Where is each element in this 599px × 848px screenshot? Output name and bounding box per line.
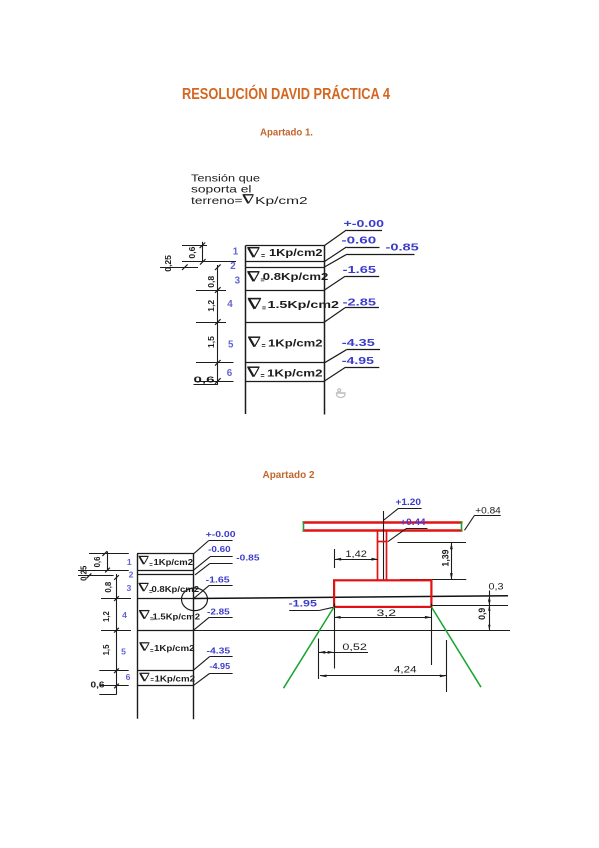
svg-text:-0.60: -0.60	[342, 236, 377, 247]
svg-text:=: =	[262, 343, 266, 350]
svg-text:-2.85: -2.85	[343, 298, 377, 309]
svg-text:3: 3	[235, 276, 241, 287]
svg-text:-4.35: -4.35	[342, 338, 376, 349]
svg-text:+-0.00: +-0.00	[344, 219, 385, 230]
svg-text:1Kp/cm2: 1Kp/cm2	[154, 558, 194, 567]
svg-text:0,3: 0,3	[489, 582, 504, 592]
svg-text:1.5Kp/cm2: 1.5Kp/cm2	[268, 300, 340, 311]
svg-text:0,8: 0,8	[104, 581, 113, 593]
svg-text:5: 5	[121, 646, 126, 656]
svg-text:+1.20: +1.20	[396, 497, 422, 507]
svg-text:terreno=: terreno=	[191, 196, 243, 207]
svg-text:-0.85: -0.85	[386, 243, 420, 254]
svg-text:6: 6	[227, 368, 233, 379]
svg-text:-1.65: -1.65	[206, 574, 230, 584]
svg-text:-4.95: -4.95	[210, 661, 231, 671]
svg-text:-0.85: -0.85	[236, 552, 259, 562]
svg-text:-4.35: -4.35	[207, 645, 231, 655]
svg-text:Apartado 2: Apartado 2	[263, 470, 316, 481]
svg-text:6: 6	[126, 672, 131, 682]
svg-text:5: 5	[228, 340, 234, 351]
svg-text:=: =	[261, 253, 265, 260]
svg-text:-0.60: -0.60	[208, 544, 231, 554]
svg-text:+0.84: +0.84	[475, 506, 501, 516]
svg-text:4,24: 4,24	[394, 664, 417, 674]
svg-text:1Kp/cm2: 1Kp/cm2	[269, 248, 323, 259]
svg-text:Kp/cm2: Kp/cm2	[255, 196, 308, 207]
svg-text:0,6: 0,6	[194, 374, 215, 384]
svg-text:Tensión que: Tensión que	[191, 173, 260, 184]
svg-text:=: =	[262, 305, 266, 312]
svg-text:1,39: 1,39	[440, 549, 450, 566]
svg-text:-4.95: -4.95	[342, 356, 375, 367]
svg-text:1,5: 1,5	[102, 644, 111, 656]
svg-text:1.5Kp/cm2: 1.5Kp/cm2	[153, 611, 201, 621]
svg-text:0,6: 0,6	[91, 681, 106, 690]
svg-text:4: 4	[227, 299, 233, 310]
svg-text:1Kp/cm2: 1Kp/cm2	[154, 644, 195, 653]
svg-text:1,2: 1,2	[206, 300, 216, 312]
svg-text:1: 1	[127, 557, 132, 567]
svg-text:+-0.00: +-0.00	[206, 529, 236, 539]
svg-text:1,2: 1,2	[102, 611, 111, 623]
svg-text:4: 4	[122, 610, 127, 620]
svg-text:3,2: 3,2	[377, 608, 397, 618]
svg-text:0.8Kp/cm2: 0.8Kp/cm2	[263, 272, 329, 283]
svg-text:0,25: 0,25	[80, 565, 89, 581]
svg-text:soporta el: soporta el	[191, 185, 252, 196]
svg-text:1Kp/cm2: 1Kp/cm2	[267, 368, 323, 379]
svg-text:1,5: 1,5	[206, 336, 216, 348]
svg-text:-1.65: -1.65	[343, 265, 377, 276]
svg-text:0,6: 0,6	[93, 556, 102, 568]
svg-text:1Kp/cm2: 1Kp/cm2	[268, 338, 323, 349]
svg-text:-1.95: -1.95	[289, 598, 318, 608]
svg-text:-2.85: -2.85	[207, 606, 230, 616]
svg-text:1Kp/cm2: 1Kp/cm2	[155, 674, 196, 683]
svg-text:0,52: 0,52	[342, 642, 367, 652]
svg-text:=: =	[261, 373, 265, 380]
svg-text:2: 2	[129, 569, 134, 579]
svg-text:+0.44: +0.44	[400, 517, 425, 527]
svg-text:0,6: 0,6	[187, 246, 197, 258]
svg-text:Apartado 1.: Apartado 1.	[260, 128, 313, 139]
svg-text:RESOLUCIÓN DAVID PRÁCTICA 4: RESOLUCIÓN DAVID PRÁCTICA 4	[182, 85, 390, 103]
svg-text:3: 3	[127, 583, 132, 593]
svg-text:1,42: 1,42	[345, 549, 367, 559]
svg-text:2: 2	[230, 261, 236, 272]
svg-text:0,25: 0,25	[163, 255, 173, 272]
svg-text:0.8Kp/cm2: 0.8Kp/cm2	[152, 585, 200, 594]
svg-text:1: 1	[233, 247, 239, 258]
svg-text:0,9: 0,9	[477, 608, 487, 620]
svg-text:0,8: 0,8	[206, 276, 216, 288]
